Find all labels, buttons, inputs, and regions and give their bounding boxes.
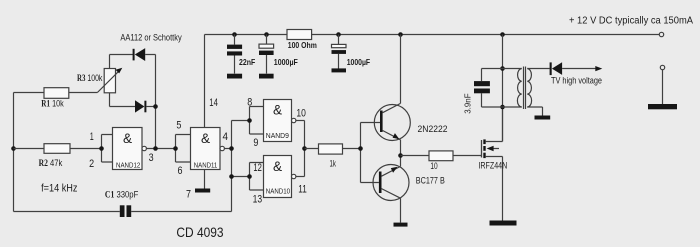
ground MOSFET source [490, 221, 517, 226]
svg-text:7: 7 [186, 188, 191, 200]
wire flyback feed [502, 35, 504, 142]
svg-text:CD 4093: CD 4093 [176, 225, 224, 240]
node rail flyback feed [500, 32, 505, 37]
resistor 10 [401, 155, 482, 157]
svg-text:10: 10 [296, 108, 306, 120]
node NAND9/10 feed [229, 146, 234, 151]
transformer T1 primary winding [517, 69, 521, 108]
wire pot branch left [110, 55, 136, 107]
ground second 1000uF [332, 68, 347, 72]
svg-text:NAND9: NAND9 [266, 133, 289, 140]
transistor Q1 2N2222 [374, 105, 410, 141]
wire HV output arrow [562, 68, 598, 70]
wire +12V power rail left segment [205, 34, 288, 36]
svg-text:14: 14 [209, 97, 218, 109]
svg-text:1000µF: 1000µF [347, 57, 370, 67]
svg-text:AA112 or Schottky: AA112 or Schottky [120, 32, 182, 42]
resistor 100 Ohm [287, 30, 312, 40]
svg-text:C1 330pF: C1 330pF [105, 189, 139, 199]
svg-text:4: 4 [223, 131, 229, 143]
svg-text:R2 47k: R2 47k [39, 158, 63, 168]
svg-text:+ 12 V DC typically ca 150mA: + 12 V DC typically ca 150mA [569, 15, 693, 26]
capacitor 3.9nF [481, 69, 483, 108]
svg-text:IRFZ44N: IRFZ44N [478, 160, 507, 170]
wire pin14 VDD feed [204, 35, 206, 128]
node 1k feed [302, 146, 307, 151]
transistor Q2 BC177 B [373, 165, 409, 201]
ground Q2 collector [394, 223, 408, 227]
wire paralleled outputs rail [304, 121, 306, 177]
svg-text:9: 9 [253, 137, 258, 149]
wire +12V power rail right segment [312, 34, 660, 36]
wire NAND11 pin7 ground lead [204, 170, 206, 189]
node C1 return [229, 174, 234, 179]
svg-text:100 Ohm: 100 Ohm [288, 40, 317, 50]
transistor U2 IRFZ44N MOSFET [481, 140, 483, 158]
svg-text:R3 100k: R3 100k [77, 73, 103, 83]
node emitter output [398, 153, 403, 158]
wire NAND11 output rail [232, 121, 250, 212]
svg-text:TV high voltage: TV high voltage [551, 75, 602, 85]
resistor R2 47k [14, 148, 102, 150]
svg-text:&: & [273, 103, 282, 118]
svg-text:1000µF: 1000µF [274, 57, 298, 67]
capacitor 22nF [234, 35, 236, 74]
node flyback bottom [500, 105, 505, 110]
transformer T1 secondary winding [527, 69, 531, 108]
op-amp U1C gate NAND9 [250, 107, 264, 135]
node NAND12 output [153, 146, 158, 151]
svg-text:8: 8 [247, 97, 252, 109]
svg-text:3.9nF: 3.9nF [463, 93, 473, 113]
capacitor C1 330pF [14, 211, 232, 213]
node base rail [358, 146, 363, 151]
terminal HV return [660, 65, 664, 69]
svg-text:12: 12 [253, 162, 262, 174]
node rail 22nF [232, 32, 237, 37]
node diode branch join [153, 104, 158, 109]
transformer T1 core [524, 67, 526, 110]
svg-text:13: 13 [253, 194, 263, 206]
potentiometer R3 100k body [104, 69, 115, 93]
capacitor second 1000uF [338, 35, 340, 69]
wire HV return [662, 70, 664, 104]
node rail Q1 collector [398, 32, 403, 37]
svg-text:10: 10 [430, 161, 437, 172]
node flyback top [500, 66, 505, 71]
svg-text:BC177 B: BC177 B [416, 176, 445, 187]
svg-text:&: & [273, 159, 282, 174]
diode D2 AA112 pointing right [135, 100, 144, 112]
diode HV rectifier [550, 62, 552, 75]
ground 22nF [227, 74, 242, 79]
svg-text:R1 10k: R1 10k [41, 99, 64, 109]
svg-text:&: & [201, 131, 210, 146]
node rail 1000uF [264, 32, 269, 37]
svg-text:&: & [123, 131, 132, 146]
wire left feedback vertical [13, 93, 15, 212]
svg-text:6: 6 [178, 165, 183, 177]
wire transistor base rail [360, 123, 362, 183]
svg-text:5: 5 [176, 120, 181, 132]
svg-text:f=14 kHz: f=14 kHz [41, 182, 77, 194]
wire secondary bottom [527, 107, 542, 116]
ground HV return [648, 104, 677, 109]
svg-text:NAND11: NAND11 [194, 162, 218, 169]
op-amp U1D gate NAND10 [250, 163, 264, 191]
capacitor 1000uF [266, 35, 268, 74]
resistor R1 10k [14, 92, 98, 94]
ground 1000uF [259, 74, 274, 79]
svg-text:3: 3 [149, 152, 154, 164]
resistor 1k [305, 148, 361, 150]
op-amp U1B gate NAND11 [176, 135, 191, 163]
transformer T1 primary wires [482, 69, 522, 108]
terminal +12V [659, 32, 663, 36]
ground pin7 [195, 189, 210, 193]
node R2 feed [11, 146, 16, 151]
diode D1 AA112 pointing left [133, 49, 135, 61]
ground secondary [535, 116, 551, 120]
svg-text:2: 2 [89, 158, 94, 170]
svg-text:NAND12: NAND12 [116, 162, 140, 169]
svg-text:1: 1 [90, 131, 94, 143]
wire diode branch top [110, 55, 156, 149]
svg-text:22nF: 22nF [239, 57, 255, 67]
wire secondary top [527, 68, 549, 70]
potentiometer R3 wiper arrow [97, 70, 119, 92]
node rail second 1000uF [336, 32, 341, 37]
svg-text:1k: 1k [330, 159, 337, 170]
op-amp U1A gate NAND12 [102, 135, 113, 163]
svg-text:11: 11 [298, 183, 307, 195]
svg-text:NAND10: NAND10 [266, 189, 290, 196]
svg-text:2N2222: 2N2222 [418, 124, 448, 135]
